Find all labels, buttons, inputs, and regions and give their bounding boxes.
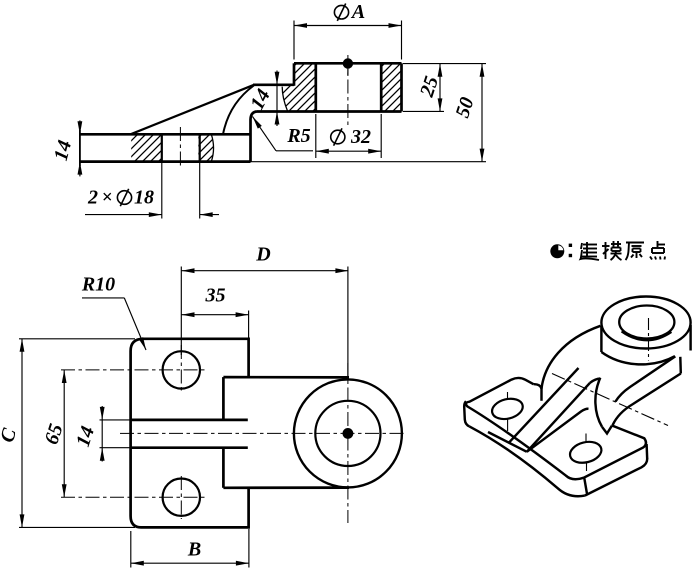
node iso cyl axis bbox=[648, 318, 650, 361]
wire iso web left silhouette bbox=[534, 326, 601, 389]
dim 14 mid arrows bbox=[275, 72, 280, 85]
dim 50 ext bottom bbox=[251, 161, 487, 163]
label PhiA bbox=[334, 5, 348, 19]
dim 14 plan line bbox=[101, 406, 103, 462]
circle boss hole plan bbox=[315, 401, 380, 466]
wire hole right wall bbox=[380, 63, 383, 111]
wire hatch band curve bbox=[211, 134, 213, 161]
dim PhiA ext right bbox=[401, 21, 403, 60]
node legend origin dot bbox=[550, 244, 564, 258]
node iso axis centerline bbox=[552, 374, 668, 426]
dim PhiA ext left bbox=[293, 21, 295, 60]
dim 25 arrows bbox=[438, 64, 443, 77]
wire rib edge top plan bbox=[131, 419, 248, 422]
wire iso web notch bbox=[602, 426, 612, 434]
node modeling origin plan bbox=[343, 428, 354, 439]
dim Phi32 ext right bbox=[380, 114, 382, 158]
label legend mo bbox=[605, 242, 607, 259]
wire iso cyl left side bbox=[600, 326, 602, 352]
dim Phi32 arrows bbox=[316, 149, 329, 154]
label legend jian bbox=[586, 242, 588, 256]
dim Phi32 line bbox=[316, 150, 381, 152]
dim C line bbox=[21, 339, 23, 528]
wire boss left edge bbox=[293, 63, 296, 86]
wire iso arm ribbon right edge bbox=[679, 357, 682, 374]
wire plate top edge bbox=[80, 133, 251, 136]
wire arm step verticals plan bbox=[222, 377, 225, 420]
circle boss outer plan bbox=[294, 379, 402, 487]
dim C arrows bbox=[20, 339, 25, 352]
dim 14 mid line bbox=[276, 71, 278, 127]
wire hole left wall bbox=[314, 63, 317, 111]
dim 35 line bbox=[182, 314, 249, 316]
wire iso cyl bottom arc bbox=[601, 352, 674, 364]
dim PhiA line bbox=[294, 25, 402, 27]
wire iso arm ribbon bottom edge bbox=[613, 374, 681, 426]
svg-text:A: A bbox=[350, 1, 365, 23]
wire iso rib slant right edge bbox=[527, 383, 590, 452]
node upper hole centerlines bbox=[61, 369, 206, 371]
svg-text:D: D bbox=[255, 243, 270, 265]
dim 25 ext bbox=[403, 110, 444, 112]
wire web curved flank bbox=[223, 86, 254, 135]
dim B ext bbox=[130, 531, 132, 568]
circle hole upper plan bbox=[163, 351, 200, 388]
wire plate left end edge bbox=[79, 130, 81, 166]
dim D arrows bbox=[182, 268, 195, 273]
wire iso plate bottom SW edge bbox=[469, 426, 584, 496]
node boss vertical centerline bbox=[347, 267, 349, 379]
wire boss right edge bbox=[400, 63, 403, 111]
wire iso rib base edge bbox=[488, 432, 527, 452]
dim 14 left arrows bbox=[78, 121, 83, 134]
wire iso web front corner edge bbox=[540, 388, 542, 401]
circle iso hole lower bbox=[568, 439, 604, 466]
dim B arrows bbox=[131, 561, 144, 566]
wire iso flank top hook bbox=[590, 379, 600, 383]
svg-text:35: 35 bbox=[205, 285, 226, 307]
dim 35 ext bbox=[248, 311, 250, 339]
circle iso cyl hole bbox=[619, 306, 674, 339]
dim PhiA arrows bbox=[294, 23, 307, 28]
wire arm top edge plan bbox=[223, 376, 349, 379]
wire iso rib slant left edge bbox=[509, 368, 579, 443]
wire section curve boss-web bbox=[282, 87, 288, 112]
node boss centerline bbox=[347, 55, 349, 125]
wire hole18 right wall bbox=[199, 134, 201, 161]
wire iso plate bottom SE edge bbox=[585, 459, 647, 496]
dim 14 left line bbox=[79, 120, 81, 176]
hatch boss right wall bbox=[381, 63, 401, 111]
wire web top flat bbox=[253, 83, 294, 86]
label legend yuan bbox=[626, 242, 644, 244]
label legend dian bbox=[657, 241, 659, 247]
hatch plate left segment bbox=[131, 134, 162, 161]
wire iso cyl right side bbox=[689, 325, 691, 351]
dim C ext bbox=[19, 338, 135, 340]
dim R5 arrow bbox=[253, 117, 262, 129]
dim 2xPhi18 ext left bbox=[161, 163, 163, 219]
dim 2xPhi18 arrows bbox=[149, 212, 162, 217]
wire plate right edge bbox=[249, 120, 252, 162]
svg-text:R10: R10 bbox=[81, 274, 115, 296]
wire iso web right flank curve bbox=[595, 378, 602, 427]
dim 2xPhi18 ext right bbox=[199, 163, 201, 219]
dim 50 arrows bbox=[480, 64, 485, 77]
wire boss bottom edge bbox=[257, 110, 402, 113]
dim 65 line bbox=[63, 370, 65, 497]
circle hole lower plan bbox=[163, 479, 200, 516]
svg-text:R5: R5 bbox=[286, 125, 310, 147]
wire fillet R5 bbox=[251, 112, 257, 120]
wire plate bottom edge bbox=[80, 160, 251, 163]
dim R10 leader bbox=[82, 297, 124, 299]
dim 65 arrows bbox=[62, 370, 67, 383]
dim 2xPhi18 line bbox=[85, 214, 162, 216]
wire iso rib right foot edge bbox=[527, 409, 589, 452]
dim 14 plan arrows bbox=[100, 407, 105, 420]
wire arm bottom edge plan bbox=[223, 486, 349, 489]
wire boss top edge bbox=[294, 62, 402, 65]
dim 50 line bbox=[481, 64, 483, 162]
wire rib edge bottom plan bbox=[131, 446, 248, 449]
label Phi32 bbox=[331, 130, 345, 144]
dim 25 line bbox=[439, 64, 441, 112]
node plate hole centerline bbox=[179, 127, 181, 169]
wire plate outline plan bbox=[131, 339, 249, 528]
svg-text:B: B bbox=[187, 539, 201, 561]
dim 14 plan ext bbox=[100, 419, 132, 421]
svg-text:32: 32 bbox=[350, 126, 371, 148]
wire iso plate top face bbox=[466, 378, 646, 479]
wire iso arm ribbon top edge bbox=[616, 356, 676, 401]
dim R5 leader bbox=[253, 117, 277, 151]
node main horizontal centerline bbox=[120, 432, 407, 434]
dim B line bbox=[131, 562, 249, 564]
circle iso cyl outer top bbox=[601, 297, 690, 349]
wire iso cyl hole depth arc bbox=[622, 332, 672, 341]
dim 50 ext top bbox=[403, 63, 486, 65]
hatch boss left wall bbox=[282, 63, 316, 111]
dim Phi32 ext left bbox=[315, 114, 317, 158]
svg-text:2: 2 bbox=[87, 187, 98, 209]
wire iso plate left thickness edge bbox=[464, 401, 469, 426]
circle iso hole upper bbox=[490, 396, 525, 422]
node modeling origin front bbox=[343, 58, 353, 68]
dim 35 arrows bbox=[182, 312, 195, 317]
wire hole18 left wall bbox=[161, 134, 163, 161]
dim R10 arrow bbox=[139, 337, 146, 350]
svg-text:18: 18 bbox=[134, 187, 154, 209]
wire web slant top bbox=[131, 85, 255, 135]
wire iso plate corner verticals bbox=[584, 478, 587, 494]
label legend colon bbox=[569, 244, 572, 247]
node iso hole axes bbox=[507, 392, 509, 399]
dim D line bbox=[182, 270, 349, 272]
svg-text:×: × bbox=[102, 187, 113, 208]
hatch plate right segment bbox=[198, 134, 213, 161]
node lower hole centerlines bbox=[61, 496, 206, 498]
